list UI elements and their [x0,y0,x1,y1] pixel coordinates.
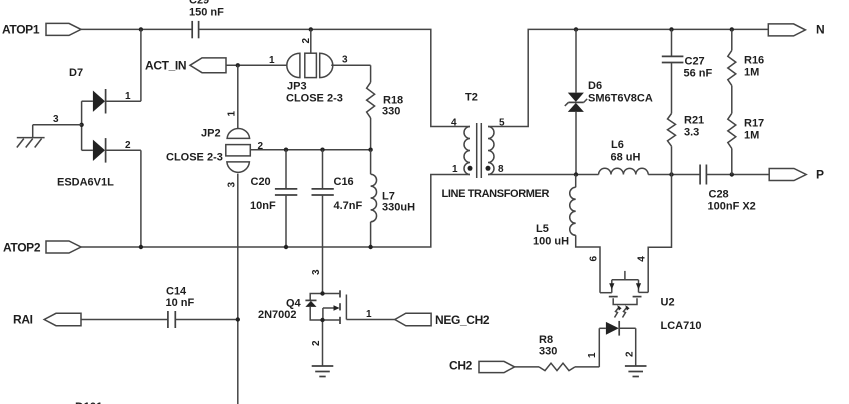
wire ATOP2 bus [81,175,470,248]
inductor L5 [533,175,600,293]
node junction D7/ATOP2 [139,245,143,249]
wire R18 to node [370,118,372,150]
wire ATOP1 to C29 [81,28,192,30]
resistor R16 [728,29,764,85]
wire JP2 pin2 bus [250,141,370,152]
node junction ATOP1/D7 [139,27,143,31]
svg-text:C27: C27 [685,56,705,68]
svg-text:R8: R8 [539,334,553,346]
svg-text:8: 8 [498,164,504,175]
transistor Q4 2N7002 [258,269,346,366]
wire C29 to T2 pin4 corner [199,29,470,126]
connector ATOP1 [2,23,81,37]
capacitor C28 [700,165,756,213]
svg-text:1: 1 [227,111,238,117]
svg-text:2: 2 [311,340,322,346]
svg-text:1M: 1M [744,130,759,142]
svg-text:4: 4 [451,118,457,129]
svg-text:CH2: CH2 [449,359,473,373]
connector NEG_CH2 [395,313,490,327]
transformer T2 [442,92,550,201]
svg-text:3: 3 [53,114,59,125]
svg-text:56 nF: 56 nF [684,68,713,80]
svg-text:10 nF: 10 nF [166,297,195,309]
svg-text:T2: T2 [465,92,478,104]
node junction R16 top [730,27,734,31]
svg-text:1: 1 [366,309,372,320]
inductor L6 [599,139,649,175]
svg-text:2: 2 [258,141,264,152]
svg-text:C28: C28 [709,189,729,201]
svg-text:3.3: 3.3 [684,127,699,139]
opto relay U2 LCA710 [600,271,701,332]
jumper JP2 [166,111,250,188]
svg-text:C20: C20 [251,176,271,188]
svg-text:ESDA6V1L: ESDA6V1L [57,177,114,189]
svg-text:ATOP2: ATOP2 [3,241,41,255]
svg-text:330: 330 [539,346,557,358]
wire C28 to P [707,174,770,176]
svg-text:330: 330 [382,106,400,118]
svg-text:CLOSE 2-3: CLOSE 2-3 [286,93,343,105]
svg-text:ATOP1: ATOP1 [2,23,40,37]
node junction C20/ATOP2 [284,245,288,249]
node junction ACT_IN/JP2 [236,63,240,67]
node junction D6/L5 [574,172,578,176]
connector ACT_IN [145,58,226,73]
svg-text:R21: R21 [684,115,704,127]
resistor R18 [367,82,404,118]
wire JP3 pin3 to R18 [331,55,370,83]
svg-text:JP3: JP3 [287,81,307,93]
svg-text:1M: 1M [744,67,759,79]
svg-text:1: 1 [269,55,275,66]
svg-text:3: 3 [342,55,348,66]
svg-text:R17: R17 [744,118,764,130]
node junction R17 bottom [730,172,734,176]
node junction C14/JP2 pin3 line [236,317,240,321]
capacitor C20 [250,150,297,247]
svg-text:D7: D7 [69,67,83,79]
svg-text:1: 1 [587,352,598,358]
diode D7 (dual ESDA6V1L) [57,67,141,189]
svg-text:3: 3 [311,269,322,275]
svg-text:SM6T6V8CA: SM6T6V8CA [588,93,653,105]
capacitor C14 [81,286,238,329]
svg-text:150 nF: 150 nF [189,7,224,19]
svg-text:4: 4 [636,256,647,262]
wire P bus left [488,174,599,176]
connector CH2 [449,359,515,373]
svg-text:L6: L6 [611,139,624,151]
node junction R18/L7 [368,148,372,152]
svg-text:NEG_CH2: NEG_CH2 [435,313,490,327]
svg-text:ACT_IN: ACT_IN [145,59,186,73]
wire C27 branch to U2 pin4 [648,175,671,293]
svg-text:2: 2 [624,351,635,357]
svg-text:D6: D6 [588,80,602,92]
ground Q4 [312,366,334,377]
svg-text:6: 6 [589,256,600,262]
svg-text:R16: R16 [744,55,764,67]
resistor R21 [668,114,705,175]
node Q4 source [320,318,324,322]
diode D6 TVS SM6T6V8CA [565,29,653,174]
ground earth symbol [17,138,45,148]
node junction D6 top [574,27,578,31]
node junction R21/U2 pin4 [669,172,673,176]
svg-text:C14: C14 [166,286,187,298]
opto light arrows [615,305,630,317]
svg-text:N: N [816,23,824,37]
wire T2 pin5 to N bus [488,29,768,126]
svg-text:D101: D101 [75,400,103,404]
svg-text:LINE TRANSFORMER: LINE TRANSFORMER [442,188,550,200]
wire ACT_IN to JP3 pin1 [226,64,287,66]
capacitor C16 [312,150,363,294]
svg-text:CLOSE 2-3: CLOSE 2-3 [166,152,223,164]
connector ATOP2 [3,241,81,255]
wire Q4 gate to NEG_CH2 [346,309,394,320]
wire D7 pin3 [33,114,82,138]
connector RAI [13,313,81,327]
svg-text:3: 3 [227,182,238,188]
wire JP2 pin3 long drop [237,174,239,404]
connector P [769,168,824,182]
node junction C20 top [284,148,288,152]
node D7 common anode [79,123,83,127]
node junction L7/ATOP2 [368,245,372,249]
svg-text:P: P [816,168,824,182]
capacitor C27 [662,29,713,113]
svg-text:2: 2 [125,140,131,151]
node junction C16 top [320,148,324,152]
wire L6 to C28 [648,174,700,176]
resistor R8 [515,334,600,371]
connector N [768,23,824,37]
svg-text:U2: U2 [661,297,675,309]
node Q4 drain [320,291,324,295]
svg-text:2: 2 [301,38,312,44]
svg-text:4.7nF: 4.7nF [334,200,363,212]
ground U2 [625,366,647,377]
capacitor C29 [189,0,224,38]
svg-text:RAI: RAI [13,313,33,327]
svg-text:68 uH: 68 uH [611,152,641,164]
wire D7 pin1 riser [140,29,142,101]
wire JP2 pin1 [237,65,239,128]
resistor R17 [728,86,764,175]
svg-text:L5: L5 [536,223,549,235]
svg-text:C16: C16 [334,176,354,188]
svg-text:1: 1 [125,91,131,102]
svg-text:1: 1 [452,164,458,175]
jumper JP3 [286,29,343,104]
svg-text:LCA710: LCA710 [661,320,702,332]
svg-text:JP2: JP2 [201,128,221,140]
svg-text:10nF: 10nF [250,200,276,212]
wire D7 pin2 drop to ATOP2 [140,150,142,247]
LED of U2 [587,321,636,367]
svg-text:330uH: 330uH [382,202,415,214]
node junction C27 top [669,27,673,31]
svg-text:Q4: Q4 [286,298,302,310]
svg-text:100 uH: 100 uH [533,236,569,248]
inductor L7 [371,150,415,247]
node junction JP3 pin2 on top wire [309,27,313,31]
svg-text:2N7002: 2N7002 [258,309,297,321]
svg-text:100nF X2: 100nF X2 [708,201,756,213]
